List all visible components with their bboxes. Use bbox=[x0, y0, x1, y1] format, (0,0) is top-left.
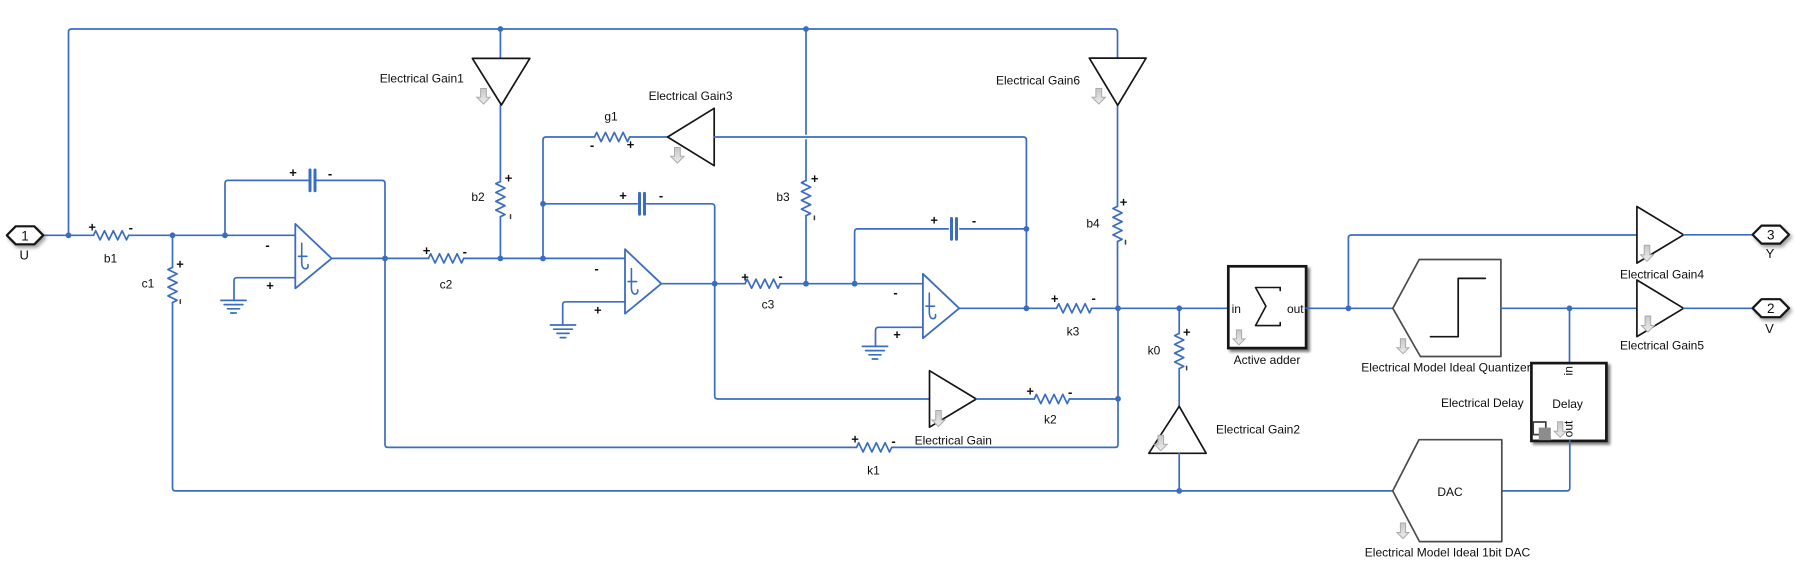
svg-text:Electrical Gain: Electrical Gain bbox=[915, 433, 992, 447]
node N9 cap C2 column junction on op2 output row bbox=[712, 281, 718, 287]
svg-text:Electrical Model Ideal Quantiz: Electrical Model Ideal Quantizer bbox=[1361, 360, 1530, 374]
svg-text:g1: g1 bbox=[604, 109, 618, 123]
resistor k2 bbox=[1026, 383, 1072, 426]
wire cap C2 row and down to op2 output junction then k2 row to Electrical Gain bbox=[543, 204, 930, 399]
node N8 cap C2 tap on stage2 column bbox=[540, 201, 546, 207]
wire quantizer output to Electrical Gain5 bbox=[1501, 307, 1637, 309]
wire Electrical Gain5 output to port V bbox=[1684, 307, 1753, 309]
svg-text:DAC: DAC bbox=[1437, 485, 1463, 499]
wire c1 column and bottom feedback row to DAC bbox=[173, 235, 1393, 491]
wire k0 column bbox=[1178, 308, 1180, 406]
svg-text:+: + bbox=[594, 303, 602, 318]
wire Electrical Gain4 output to port Y bbox=[1684, 234, 1753, 236]
svg-text:+: + bbox=[505, 170, 513, 185]
svg-text:Electrical Gain3: Electrical Gain3 bbox=[649, 89, 733, 103]
svg-text:+: + bbox=[851, 432, 859, 447]
svg-text:b1: b1 bbox=[104, 252, 118, 266]
svg-text:Electrical Gain1: Electrical Gain1 bbox=[380, 72, 464, 86]
capacitor C3 (integrator 3 feedback) bbox=[930, 213, 976, 240]
svg-text:+: + bbox=[289, 165, 297, 180]
svg-text:+: + bbox=[423, 243, 431, 258]
svg-text:3: 3 bbox=[1767, 228, 1775, 243]
wire op2 non-inverting input to ground bbox=[563, 302, 625, 325]
svg-text:+: + bbox=[893, 327, 901, 342]
svg-text:k2: k2 bbox=[1044, 413, 1057, 427]
resistor k1 bbox=[851, 432, 895, 478]
resistor b4 bbox=[1086, 194, 1127, 244]
svg-text:1: 1 bbox=[21, 228, 29, 243]
svg-text:-: - bbox=[659, 188, 663, 203]
node N12 top bus b3 tap bbox=[803, 26, 809, 32]
wire top feedback bus from input node to Electrical Gain6 bbox=[69, 29, 1118, 235]
svg-text:c2: c2 bbox=[440, 277, 453, 291]
capacitor C1 (integrator 1 feedback) bbox=[289, 165, 332, 191]
node N2 c1 branch junction bbox=[170, 232, 176, 238]
svg-text:b3: b3 bbox=[776, 190, 790, 204]
gain block Electrical Gain (feedforward) bbox=[915, 371, 992, 448]
wire op1 output row to op2 inverting input bbox=[332, 257, 625, 259]
block Delay bbox=[1531, 363, 1606, 441]
wire op3 non-inverting input to ground bbox=[876, 327, 923, 346]
resistor b1 bbox=[88, 219, 133, 265]
wire op1 non-inverting input to ground bbox=[234, 278, 295, 301]
op-amp U3 (integrator 3) bbox=[893, 274, 959, 342]
svg-text:in: in bbox=[1562, 366, 1576, 375]
node N7 top bus Gain1 tap bbox=[498, 26, 504, 32]
node N13 cap C3 junction on stage3 column bbox=[1024, 226, 1030, 232]
node N6 stage2 input junction bbox=[540, 256, 546, 262]
svg-text:-: - bbox=[1068, 385, 1072, 400]
wire cap C1 branch: up from input row, across, down to op1 output row and k1 row bbox=[225, 180, 857, 447]
resistor g1 bbox=[590, 109, 635, 152]
node N14 op3 output junction bbox=[1024, 305, 1030, 311]
svg-text:2: 2 bbox=[1767, 301, 1775, 316]
svg-text:-: - bbox=[590, 138, 594, 153]
svg-text:+: + bbox=[811, 171, 819, 186]
node N10 b3 junction on op2 output row bbox=[803, 281, 809, 287]
wire Electrical Gain output through k2 bbox=[976, 398, 1118, 400]
wire Electrical Gain1 / b2 column bbox=[499, 29, 501, 258]
node N5 b2 junction bbox=[498, 256, 504, 262]
node N4 op1 output junction bbox=[382, 256, 388, 262]
op-amp U2 (integrator 2) bbox=[594, 249, 661, 317]
svg-text:-: - bbox=[129, 220, 133, 235]
svg-text:b4: b4 bbox=[1086, 216, 1100, 230]
node N3 cap C1 branch junction bbox=[222, 232, 228, 238]
svg-text:+: + bbox=[1026, 383, 1034, 398]
block Electrical Model Ideal 1bit DAC bbox=[1365, 440, 1531, 560]
gain block Electrical Gain2 (points up) bbox=[1149, 406, 1301, 453]
svg-text:Y: Y bbox=[1766, 246, 1775, 261]
svg-text:-: - bbox=[1092, 290, 1096, 305]
wire Delay output down and left to DAC bbox=[1502, 441, 1570, 491]
svg-text:-: - bbox=[891, 433, 895, 448]
resistor b3 bbox=[776, 171, 819, 219]
resistor c2 bbox=[423, 243, 467, 291]
node N18 bottom row junction under Gain2 bbox=[1176, 488, 1182, 494]
svg-text:+: + bbox=[1051, 291, 1059, 306]
node N20 delay tap junction bbox=[1567, 305, 1573, 311]
wire cap C3 branch bbox=[855, 229, 1027, 284]
wire tap down to Delay block bbox=[1569, 308, 1571, 363]
wire op2 output row to op3 inverting input bbox=[661, 283, 923, 285]
svg-text:+: + bbox=[88, 219, 96, 234]
node N17 k2 junction bbox=[1115, 396, 1121, 402]
node N16 k0 junction bbox=[1176, 305, 1182, 311]
label Electrical Delay bbox=[1441, 396, 1524, 410]
block Active adder bbox=[1228, 266, 1306, 367]
svg-text:Electrical Gain2: Electrical Gain2 bbox=[1216, 423, 1300, 437]
svg-text:+: + bbox=[1120, 194, 1128, 209]
resistor c3 bbox=[741, 268, 783, 311]
svg-text:-: - bbox=[778, 268, 782, 283]
wire Electrical Gain6 / b4 / k-summing column bbox=[892, 105, 1118, 447]
svg-text:-: - bbox=[328, 166, 332, 181]
svg-text:+: + bbox=[741, 269, 749, 284]
svg-text:U: U bbox=[20, 248, 29, 263]
capacitor C2 (integrator 2 feedback) bbox=[619, 188, 663, 214]
svg-text:c1: c1 bbox=[142, 276, 155, 290]
svg-text:+: + bbox=[1183, 325, 1191, 340]
wire g1 to Electrical Gain3 output apex bbox=[630, 136, 668, 138]
svg-text:out: out bbox=[1287, 302, 1304, 316]
resistor b2 bbox=[471, 170, 512, 218]
gain block Electrical Gain3 (points left) bbox=[649, 89, 733, 166]
output port 2 V bbox=[1753, 299, 1789, 336]
node N1 input junction at x68 bbox=[66, 232, 72, 238]
gain block Electrical Gain5 bbox=[1620, 280, 1704, 352]
svg-text:+: + bbox=[266, 278, 274, 293]
svg-text:b2: b2 bbox=[471, 190, 485, 204]
svg-text:Electrical Model Ideal 1bit DA: Electrical Model Ideal 1bit DAC bbox=[1365, 546, 1531, 560]
svg-text:-: - bbox=[972, 213, 976, 228]
wire stage2 left column from g1 row down to op2 input row bbox=[543, 137, 595, 258]
svg-text:Electrical Gain4: Electrical Gain4 bbox=[1620, 267, 1704, 281]
ground G3 bbox=[862, 346, 887, 359]
output port 3 Y bbox=[1753, 226, 1789, 261]
wire b3 column from top bus bbox=[805, 29, 807, 284]
resistor k3 bbox=[1051, 290, 1096, 338]
wire Electrical Gain3 input from stage3 column bbox=[714, 137, 1026, 308]
svg-text:Electrical Delay: Electrical Delay bbox=[1441, 396, 1524, 410]
svg-text:c3: c3 bbox=[762, 298, 775, 312]
node N15 b4/k3 junction bbox=[1115, 305, 1121, 311]
svg-text:k3: k3 bbox=[1067, 324, 1080, 338]
svg-text:Active adder: Active adder bbox=[1234, 353, 1301, 367]
wire op3 output row to Active adder input bbox=[959, 307, 1228, 309]
svg-text:+: + bbox=[930, 213, 938, 228]
svg-text:-: - bbox=[463, 244, 467, 259]
svg-text:+: + bbox=[176, 257, 184, 272]
op-amp U1 (integrator 1) bbox=[265, 224, 331, 293]
svg-text:Electrical Gain6: Electrical Gain6 bbox=[996, 74, 1080, 88]
svg-text:in: in bbox=[1232, 302, 1241, 316]
wire input row: port U to op-amp U1 inverting input bbox=[43, 234, 295, 236]
svg-text:k0: k0 bbox=[1148, 344, 1161, 358]
resistor c1 bbox=[142, 257, 185, 304]
svg-text:-: - bbox=[893, 285, 897, 300]
resistor k0 bbox=[1148, 325, 1191, 370]
gain block Electrical Gain1 bbox=[380, 58, 530, 105]
svg-text:+: + bbox=[627, 137, 635, 152]
svg-text:k1: k1 bbox=[867, 463, 880, 477]
block Electrical Model Ideal Quantizer bbox=[1361, 260, 1530, 375]
svg-text:Delay: Delay bbox=[1552, 397, 1583, 411]
svg-text:+: + bbox=[619, 188, 627, 203]
wire tap up to Electrical Gain4 bbox=[1348, 235, 1637, 308]
node N19 quantizer input junction bbox=[1346, 305, 1352, 311]
wire Active adder output to quantizer bbox=[1306, 307, 1393, 309]
ground G2 bbox=[550, 325, 575, 338]
gain block Electrical Gain6 bbox=[996, 58, 1146, 105]
svg-text:-: - bbox=[265, 237, 269, 252]
svg-text:V: V bbox=[1765, 321, 1774, 336]
svg-text:Electrical Gain5: Electrical Gain5 bbox=[1620, 338, 1704, 352]
input port 1 U bbox=[7, 226, 43, 262]
node N11 cap C3 tap junction bbox=[852, 281, 858, 287]
gain block Electrical Gain4 bbox=[1620, 207, 1704, 282]
ground G1 bbox=[221, 300, 246, 313]
wire Electrical Gain2 output to bottom feedback row bbox=[1178, 453, 1180, 491]
svg-text:-: - bbox=[594, 261, 598, 276]
svg-text:out: out bbox=[1562, 420, 1576, 437]
